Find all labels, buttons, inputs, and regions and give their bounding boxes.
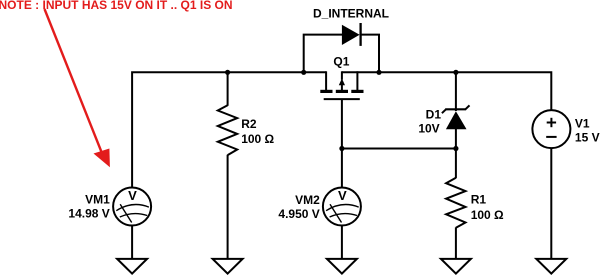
- wire R2 lower lead to ground: [227, 155, 229, 260]
- bulk stub: [356, 71, 358, 90]
- ground (R1 branch): [441, 259, 471, 274]
- svg-text:D1: D1: [426, 108, 442, 122]
- svg-text:D_INTERNAL: D_INTERNAL: [313, 7, 389, 21]
- note arrow: [45, 9, 110, 167]
- transistor Q1 (MOSFET): [320, 71, 363, 99]
- resistor R2: [218, 105, 237, 155]
- gate plate: [324, 98, 360, 100]
- ground (VM2 branch): [327, 259, 357, 274]
- svg-text:V: V: [128, 188, 137, 203]
- voltmeter VM2: [323, 188, 361, 226]
- svg-text:R1: R1: [471, 193, 487, 207]
- wire left rail + top-left segment: [132, 72, 326, 188]
- junction node bridge right: [376, 70, 381, 75]
- svg-text:100 Ω: 100 Ω: [471, 208, 504, 222]
- wire top-right segment + V1 upper lead: [342, 72, 551, 111]
- zener diode D1: [442, 105, 470, 129]
- ground (R2 branch): [213, 259, 243, 274]
- wire bridge left (anode side of D_INTERNAL): [304, 35, 343, 74]
- contact bars: [320, 90, 332, 93]
- svg-text:100 Ω: 100 Ω: [241, 132, 274, 146]
- wire VM2 lower lead to ground: [341, 225, 343, 260]
- wire mid horizontal (gate node to D1/R1 node): [342, 148, 456, 150]
- svg-text:Q1: Q1: [333, 55, 349, 69]
- source stub with body arrow: [341, 71, 343, 79]
- drain stub: [325, 71, 327, 90]
- junction node gate/mid wire: [339, 146, 344, 151]
- junction node R2/top rail: [225, 70, 230, 75]
- diode D_INTERNAL: [342, 23, 361, 46]
- svg-text:V: V: [338, 188, 347, 203]
- junction node D1/R1/mid wire: [453, 146, 458, 151]
- svg-text:V1: V1: [575, 117, 590, 131]
- wire VM1 lower lead to ground: [131, 225, 133, 260]
- voltage source V1: [532, 110, 570, 148]
- wire D1 lower lead: [455, 129, 457, 150]
- svg-text:VM1: VM1: [85, 193, 110, 207]
- svg-text:14.98 V: 14.98 V: [68, 207, 109, 221]
- wire gate lead down to VM2: [341, 99, 343, 188]
- svg-text:NOTE : INPUT HAS 15V ON IT ..: NOTE : INPUT HAS 15V ON IT .. Q1 IS ON: [0, 0, 233, 12]
- ground (V1 branch): [536, 259, 566, 274]
- resistor R1: [446, 178, 465, 228]
- svg-text:R2: R2: [241, 117, 257, 131]
- wire R1 upper lead: [455, 149, 457, 179]
- wire R1 lower lead to ground: [455, 227, 457, 259]
- svg-text:15 V: 15 V: [575, 130, 600, 144]
- voltmeter VM1: [113, 188, 151, 226]
- svg-text:10V: 10V: [418, 121, 439, 135]
- wire D1 upper lead: [455, 71, 457, 111]
- wire V1 lower lead to ground: [550, 148, 552, 260]
- svg-text:VM2: VM2: [295, 193, 320, 207]
- svg-text:4.950 V: 4.950 V: [278, 207, 319, 221]
- wire R2 upper lead: [227, 71, 229, 106]
- ground (VM1 branch): [117, 259, 147, 274]
- wire bridge right (cathode side of D_INTERNAL): [361, 35, 379, 74]
- junction node bridge left: [301, 70, 306, 75]
- junction node D1/top rail: [453, 70, 458, 75]
